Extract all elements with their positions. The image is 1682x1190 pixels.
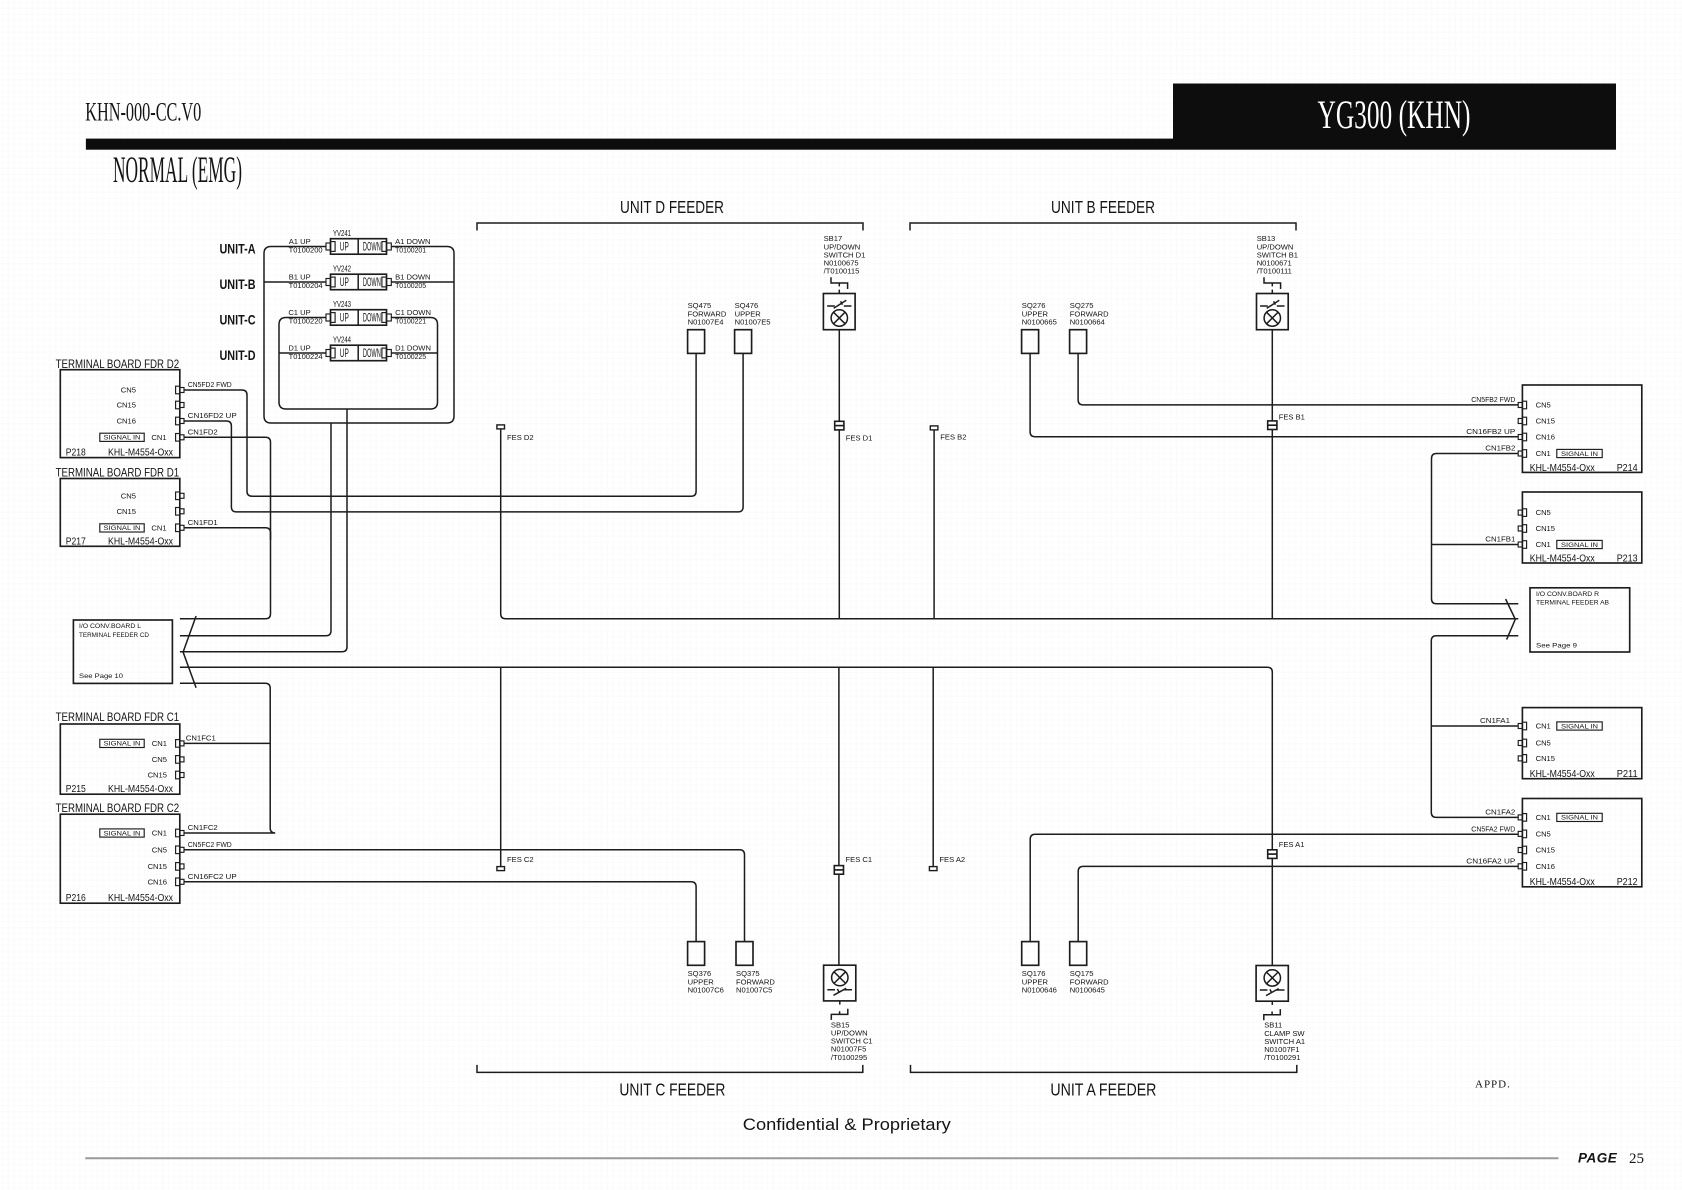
SIGNAL IN label P217 [100,524,144,532]
svg-text:/T0100295: /T0100295 [831,1053,867,1062]
SIGNAL IN label P213 [1557,540,1602,548]
svg-text:/T0100291: /T0100291 [1264,1053,1300,1062]
svg-text:SIGNAL IN: SIGNAL IN [1561,724,1598,730]
wire loop C/D (inner) [279,318,438,410]
svg-text:T0100201: T0100201 [395,245,426,254]
wire CN1FB2 bus to I/O board R [1432,454,1519,604]
svg-text:DOWN: DOWN [363,275,381,289]
svg-text:CN5FD2 FWD: CN5FD2 FWD [188,380,232,389]
sensor SQ376 UPPER [688,942,724,995]
svg-text:UNIT A FEEDER: UNIT A FEEDER [1050,1079,1156,1099]
bus arrow into I/O board R [1506,599,1516,640]
svg-text:P217: P217 [66,535,86,547]
solenoid valve YV243 [288,300,431,325]
wire SQ275 to CN5FB2 [1078,353,1518,405]
wire CN1FB1 tap [1432,544,1519,546]
SIGNAL IN label P211 [1557,722,1602,730]
wire SB13 to middle bus [1271,330,1273,619]
wire drop to FES C2 [500,667,502,866]
svg-text:CN5: CN5 [1536,508,1551,517]
svg-text:CN1FA1: CN1FA1 [1480,716,1510,725]
svg-text:P218: P218 [66,447,86,459]
FES D2 terminal [497,425,505,429]
wire CN5FD2 FWD to SQ475 [184,353,696,496]
svg-text:TERMINAL BOARD FDR C2: TERMINAL BOARD FDR C2 [56,803,179,815]
svg-text:CN1: CN1 [151,433,166,442]
svg-text:KHL-M4554-Oxx: KHL-M4554-Oxx [108,535,174,547]
svg-text:KHL-M4554-Oxx: KHL-M4554-Oxx [108,447,174,459]
wire I/O board L to CN1FC2 [180,683,275,833]
svg-text:CN15: CN15 [1536,417,1555,426]
wire CN16FC2 UP to SQ376 [184,882,696,942]
wire drop to SB15 [838,667,840,965]
svg-text:SIGNAL IN: SIGNAL IN [1561,816,1598,822]
solenoid valve YV244 [288,336,431,361]
svg-text:KHL-M4554-Oxx: KHL-M4554-Oxx [108,892,174,904]
svg-text:CN5: CN5 [1536,830,1551,839]
SIGNAL IN label P215 [100,739,144,747]
svg-text:CN5: CN5 [121,491,136,500]
svg-text:PAGE: PAGE [1578,1151,1618,1166]
SIGNAL IN label P216 [100,829,144,837]
svg-text:T0100204: T0100204 [289,281,323,290]
svg-text:CN5FA2 FWD: CN5FA2 FWD [1471,824,1515,833]
svg-text:/T0100111: /T0100111 [1257,266,1292,275]
terminal board TERMINAL BOARD FDR C1 (P215) [56,712,184,795]
svg-text:FES C2: FES C2 [507,855,534,864]
svg-text:N0100646: N0100646 [1022,985,1057,994]
UNIT A FEEDER bracket [911,1065,1297,1073]
svg-text:See Page 9: See Page 9 [1536,643,1577,650]
svg-text:CN1FB1: CN1FB1 [1485,535,1515,544]
svg-text:SIGNAL IN: SIGNAL IN [104,436,141,442]
bus arrow into I/O board L [183,616,196,688]
svg-text:CN15: CN15 [148,862,167,871]
svg-text:CN16: CN16 [117,417,136,426]
svg-text:T0100200: T0100200 [289,245,323,254]
svg-text:UP: UP [340,240,349,254]
svg-text:CN1FD1: CN1FD1 [188,518,218,527]
wire inner loop exit to I/O board L [180,409,347,652]
FES B1 inline fuse [1268,421,1277,430]
svg-text:DOWN: DOWN [363,240,381,254]
wire CN16FA2 to SQ175 [1078,866,1518,941]
svg-text:UNIT-C: UNIT-C [220,312,256,328]
svg-text:CN16: CN16 [1536,862,1555,871]
sensor SQ475 FORWARD [688,301,727,353]
svg-text:CN16FD2 UP: CN16FD2 UP [188,411,237,420]
svg-text:CN5: CN5 [121,386,136,395]
footer rule [85,1157,1558,1159]
svg-text:FES A1: FES A1 [1279,840,1305,849]
svg-text:T0100220: T0100220 [289,316,323,325]
svg-text:CN15: CN15 [1536,846,1555,855]
svg-text:TERMINAL BOARD FDR D1: TERMINAL BOARD FDR D1 [56,467,179,479]
FES A1 inline fuse on SB11 line [1268,850,1277,859]
svg-text:CN15: CN15 [148,771,167,780]
UNIT C FEEDER bracket [477,1065,863,1073]
svg-text:I/O CONV.BOARD R: I/O CONV.BOARD R [1536,591,1599,598]
FES D1 inline fuse [835,421,844,430]
switch SB15 UP/DOWN SWITCH C1 [824,965,873,1062]
SIGNAL IN label P212 [1557,813,1602,821]
svg-text:CN16: CN16 [148,877,167,886]
terminal board TERMINAL BOARD FDR D2 (P218) [56,359,184,459]
svg-text:CN1FB2: CN1FB2 [1485,444,1515,453]
svg-text:YV244: YV244 [333,336,351,345]
wire row B taps [264,281,454,283]
UNIT B FEEDER bracket [910,223,1296,231]
svg-text:UNIT B FEEDER: UNIT B FEEDER [1051,197,1155,217]
svg-text:P216: P216 [66,892,86,904]
wire drop to FES A2 [932,667,934,866]
svg-text:CN16FC2 UP: CN16FC2 UP [188,872,237,881]
I/O CONV.BOARD L box [73,620,172,683]
svg-text:UNIT-B: UNIT-B [220,276,256,292]
svg-text:KHN-000-CC.V0: KHN-000-CC.V0 [85,97,201,126]
svg-text:APPD.: APPD. [1475,1079,1511,1091]
svg-text:SIGNAL IN: SIGNAL IN [1561,452,1598,458]
svg-text:FES A2: FES A2 [939,855,965,864]
svg-text:CN5: CN5 [152,845,167,854]
svg-text:CN15: CN15 [1536,754,1555,763]
svg-text:KHL-M4554-Oxx: KHL-M4554-Oxx [108,783,174,795]
svg-text:CN1: CN1 [151,523,166,532]
I/O CONV.BOARD R box [1530,588,1630,652]
svg-text:CN1: CN1 [1536,722,1551,731]
svg-text:N0100665: N0100665 [1022,318,1057,327]
terminal board P214 [1518,385,1642,474]
svg-text:P215: P215 [66,783,86,795]
svg-text:N01007C5: N01007C5 [736,985,772,994]
svg-text:CN16FA2 UP: CN16FA2 UP [1466,857,1515,866]
terminal board TERMINAL BOARD FDR C2 (P216) [56,803,184,904]
svg-text:CN1: CN1 [152,829,167,838]
wire SQ276 to CN16FB2 [1030,353,1518,436]
svg-text:TERMINAL BOARD FDR C1: TERMINAL BOARD FDR C1 [56,712,179,724]
FES B2 terminal and drop wire [930,426,938,430]
svg-text:P214: P214 [1617,462,1638,474]
svg-text:CN1: CN1 [152,739,167,748]
svg-text:N01007E4: N01007E4 [688,318,724,327]
svg-text:N0100664: N0100664 [1070,318,1105,327]
svg-text:YV241: YV241 [333,229,351,238]
svg-text:T0100224: T0100224 [289,352,323,361]
svg-text:UP: UP [340,275,349,289]
svg-text:CN1FD2: CN1FD2 [188,428,218,437]
switch SB11 CLAMP SW SWITCH A1 [1256,966,1305,1063]
wire loop A/B (outer) [264,247,454,424]
solenoid valve YV242 [289,265,431,290]
wire CN1FC1 tap [184,742,270,744]
svg-text:CN5FC2 FWD: CN5FC2 FWD [188,840,232,849]
svg-text:25: 25 [1629,1151,1644,1167]
svg-text:FES B1: FES B1 [1279,412,1305,421]
svg-text:See Page 10: See Page 10 [79,673,123,680]
sensor SQ275 FORWARD [1070,301,1110,353]
svg-text:CN1: CN1 [1536,813,1551,822]
svg-text:CN1FA2: CN1FA2 [1485,808,1515,817]
svg-text:CN15: CN15 [117,507,136,516]
svg-text:CN5: CN5 [1536,401,1551,410]
svg-text:TERMINAL FEEDER CD: TERMINAL FEEDER CD [79,632,149,639]
svg-text:YG300 (KHN): YG300 (KHN) [1318,92,1471,137]
sensor SQ375 FORWARD [736,942,775,995]
switch SB17 UP/DOWN SWITCH D1 [823,234,865,330]
FES A2 terminal [929,867,937,871]
svg-text:SIGNAL IN: SIGNAL IN [104,742,141,748]
svg-text:CN1: CN1 [1536,449,1551,458]
svg-text:N01007C6: N01007C6 [688,985,724,994]
terminal board P213 [1518,492,1642,565]
wire CN16FD2 UP to SQ476 [184,353,743,512]
svg-text:FES D2: FES D2 [507,433,534,442]
svg-text:SIGNAL IN: SIGNAL IN [104,526,141,532]
wire CN1FA1 tap [1431,725,1518,727]
svg-text:T0100225: T0100225 [395,352,426,361]
svg-text:CN15: CN15 [1536,524,1555,533]
terminal board P212 [1518,799,1642,889]
wire outer loop exit to I/O board L [180,423,331,636]
wire row D taps [279,352,438,354]
svg-text:UP: UP [340,311,349,325]
svg-text:CN5: CN5 [152,755,167,764]
thick header rule [86,139,1173,150]
UNIT D FEEDER bracket [477,223,863,231]
svg-text:FES C1: FES C1 [846,855,873,864]
terminal board TERMINAL BOARD FDR D1 (P217) [56,467,184,547]
svg-text:CN16FB2 UP: CN16FB2 UP [1466,427,1515,436]
black title banner [1173,84,1616,150]
svg-text:CN1: CN1 [1536,540,1551,549]
sensor SQ276 UPPER [1022,301,1057,353]
SIGNAL IN label P218 [100,433,144,441]
sensor SQ476 UPPER [735,301,771,353]
FES C2 terminal [497,867,505,871]
svg-text:CN1FC2: CN1FC2 [188,823,218,832]
sensor SQ176 UPPER [1022,942,1057,995]
svg-text:/T0100115: /T0100115 [824,266,860,275]
svg-text:KHL-M4554-Oxx: KHL-M4554-Oxx [1530,876,1596,888]
svg-text:YV242: YV242 [333,265,351,274]
svg-text:UP: UP [340,346,349,360]
wire FES D2 line to I/O board R (middle bus) [501,429,1519,619]
svg-text:UNIT-D: UNIT-D [220,347,256,363]
svg-text:UNIT C FEEDER: UNIT C FEEDER [619,1079,725,1099]
svg-text:UNIT D FEEDER: UNIT D FEEDER [620,197,724,217]
sensor SQ175 FORWARD [1070,942,1109,995]
svg-text:KHL-M4554-Oxx: KHL-M4554-Oxx [1530,462,1596,474]
svg-text:N0100645: N0100645 [1070,985,1105,994]
wire CN1FD2 to I/O board L [180,437,271,619]
FES C1 inline fuse [834,866,843,875]
svg-text:YV243: YV243 [333,300,351,309]
svg-text:UNIT-A: UNIT-A [220,241,256,257]
terminal board P211 [1518,708,1642,780]
svg-text:CN16: CN16 [1536,433,1555,442]
svg-text:DOWN: DOWN [363,346,381,360]
svg-text:I/O CONV.BOARD L: I/O CONV.BOARD L [79,623,141,630]
svg-text:CN1FC1: CN1FC1 [186,734,216,743]
svg-text:CN15: CN15 [117,401,136,410]
svg-text:P212: P212 [1617,876,1638,888]
svg-text:SIGNAL IN: SIGNAL IN [1561,543,1598,549]
svg-text:Confidential & Proprietary: Confidential & Proprietary [743,1116,952,1134]
wire I/O board R to CN1FA2 bus [1431,636,1518,818]
switch SB13 UP/DOWN SWITCH B1 [1257,234,1299,330]
svg-text:P211: P211 [1617,768,1638,780]
wire SB17 to middle bus [838,330,840,619]
svg-text:T0100221: T0100221 [395,316,426,325]
wire CN5FA2 to SQ176 [1030,834,1518,941]
svg-text:TERMINAL FEEDER AB: TERMINAL FEEDER AB [1536,600,1609,607]
svg-text:SIGNAL IN: SIGNAL IN [104,831,141,837]
svg-text:T0100205: T0100205 [395,281,426,290]
svg-text:KHL-M4554-Oxx: KHL-M4554-Oxx [1530,768,1596,780]
SIGNAL IN label P214 [1557,449,1602,457]
svg-text:KHL-M4554-Oxx: KHL-M4554-Oxx [1530,553,1596,565]
wire lower bus: I/O board L to SB11 [180,667,1272,965]
svg-text:DOWN: DOWN [363,311,381,325]
wire CN1FD bus into I/O board L [179,618,181,620]
svg-text:NORMAL (EMG): NORMAL (EMG) [113,150,242,191]
svg-text:P213: P213 [1617,553,1638,565]
svg-text:CN5FB2 FWD: CN5FB2 FWD [1471,395,1515,404]
svg-text:FES B2: FES B2 [940,433,966,442]
svg-text:N01007E5: N01007E5 [735,318,771,327]
svg-text:CN5: CN5 [1536,739,1551,748]
svg-text:FES D1: FES D1 [846,433,873,442]
wire CN5FC2 FWD to SQ375 [184,850,745,942]
solenoid valve YV241 [289,229,431,254]
wire CN1FD1 joining CN1FD2 bus [184,528,271,540]
